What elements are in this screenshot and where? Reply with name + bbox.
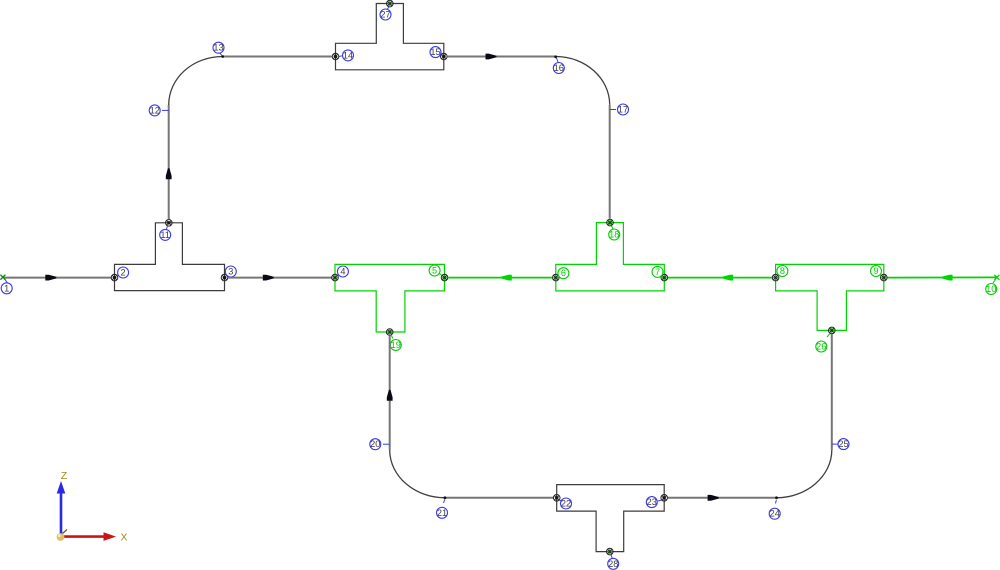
label 9 xyxy=(871,266,882,277)
svg-text:Z: Z xyxy=(61,470,68,482)
flow arrow pipe 1 xyxy=(45,275,56,281)
pipe 11-14 (vertical riser and elbow to top tee) xyxy=(168,105,170,219)
label 24 xyxy=(769,500,780,519)
pipe 7-8 (green) xyxy=(668,277,772,279)
svg-text:1: 1 xyxy=(4,283,9,293)
svg-text:12: 12 xyxy=(150,105,160,115)
marker node 5 (green) xyxy=(441,274,448,281)
svg-text:10: 10 xyxy=(986,284,996,294)
marker node 9 (green) xyxy=(881,274,888,281)
svg-text:27: 27 xyxy=(380,10,390,20)
pipe 9-10 (green) xyxy=(887,276,996,278)
label 4 xyxy=(337,266,348,277)
svg-text:15: 15 xyxy=(430,47,440,57)
tee junction D (nodes 8,9,26 - green, stem down) xyxy=(776,264,884,330)
svg-text:22: 22 xyxy=(561,499,571,509)
label 7 xyxy=(652,266,663,277)
node 16 vertex dot xyxy=(554,55,557,58)
marker node 26 (green) xyxy=(829,327,836,334)
marker node 6 (green) xyxy=(553,274,560,281)
label 3 xyxy=(225,266,236,277)
node 21 vertex dot xyxy=(444,496,447,499)
marker node 28 (green) xyxy=(607,548,614,555)
svg-text:6: 6 xyxy=(561,268,566,278)
label 27 xyxy=(380,7,391,21)
label 25 xyxy=(832,439,849,450)
svg-text:19: 19 xyxy=(391,340,401,350)
svg-text:11: 11 xyxy=(160,230,170,240)
tee junction E (nodes 14,15,27) xyxy=(336,4,444,70)
label 22 xyxy=(560,498,572,509)
flow arrow pipe 9 (green, left) xyxy=(942,275,953,281)
svg-text:2: 2 xyxy=(121,268,126,278)
svg-text:14: 14 xyxy=(343,50,353,60)
tee junction F (nodes 22,23,28 - stem down) xyxy=(557,485,665,552)
svg-text:7: 7 xyxy=(655,267,660,277)
svg-text:9: 9 xyxy=(873,266,878,276)
pipe 15-16-17-18 (top right run and elbow down) xyxy=(448,56,556,58)
svg-text:28: 28 xyxy=(608,559,618,569)
flow arrow pipe 19 (up) xyxy=(387,390,393,401)
label 26 xyxy=(816,334,830,353)
label 8 xyxy=(777,266,788,277)
svg-text:25: 25 xyxy=(838,439,848,449)
label 23 xyxy=(646,497,661,508)
marker node 4 xyxy=(332,274,339,281)
label 2 xyxy=(117,267,129,278)
marker node 18 (green) xyxy=(607,219,614,226)
tee junction C (nodes 6,7,18 - green) xyxy=(556,223,665,291)
svg-text:16: 16 xyxy=(554,63,564,73)
flow arrow pipe 4 xyxy=(263,275,274,281)
flow arrow pipe 11 xyxy=(166,168,172,179)
label 14 xyxy=(339,50,354,61)
node 1 endpoint X xyxy=(0,275,5,280)
pipe 1 (left inlet pipe) xyxy=(4,277,111,279)
marker node 27 (green) xyxy=(387,0,394,7)
svg-text:8: 8 xyxy=(780,266,785,276)
label 17 xyxy=(610,104,629,115)
svg-text:24: 24 xyxy=(770,509,780,519)
svg-text:X: X xyxy=(120,532,127,544)
svg-text:4: 4 xyxy=(340,267,345,277)
svg-text:20: 20 xyxy=(370,439,380,449)
svg-text:5: 5 xyxy=(432,266,437,276)
label 13 xyxy=(213,42,224,56)
label 19 xyxy=(390,335,401,351)
label 20 xyxy=(370,439,390,450)
marker node 14 xyxy=(332,53,339,60)
label 5 xyxy=(429,265,441,276)
svg-text:3: 3 xyxy=(228,267,233,277)
pipe 19-20-21-22 (lower left loop) xyxy=(389,336,391,450)
label 21 xyxy=(437,500,448,519)
axis origin ball xyxy=(57,533,65,541)
svg-text:18: 18 xyxy=(609,230,619,240)
label 16 xyxy=(553,58,564,74)
marker node 7 (green) xyxy=(661,274,668,281)
flow arrow pipe 7 (green, left) xyxy=(722,275,733,281)
label 6 xyxy=(558,268,569,279)
svg-text:23: 23 xyxy=(647,497,657,507)
marker node 2 xyxy=(111,274,118,281)
label 10 xyxy=(986,280,997,295)
flow arrow pipe 15 xyxy=(486,54,497,60)
tee junction B (nodes 4,5,19 - green, stem down) xyxy=(335,264,445,332)
pipe 2-3 run (tee A to tee B) xyxy=(228,277,332,279)
flow arrow pipe 5 (green, left) xyxy=(501,275,512,281)
svg-text:13: 13 xyxy=(213,43,223,53)
label 15 xyxy=(430,47,442,58)
marker node 22 xyxy=(553,495,560,502)
pipe 5-6 (green) xyxy=(448,277,552,279)
label 11 xyxy=(160,226,171,240)
label 1 xyxy=(1,279,12,294)
svg-text:21: 21 xyxy=(437,508,447,518)
node 10 endpoint X (green) xyxy=(994,275,999,280)
pipe 23-24-25-26 (lower right loop) xyxy=(668,497,777,499)
marker node 3 xyxy=(221,274,228,281)
node 13 vertex dot xyxy=(221,55,224,58)
marker node 11 xyxy=(166,220,173,227)
svg-text:26: 26 xyxy=(816,342,826,352)
axis indicator: X arrow (red) xyxy=(63,535,104,538)
flow arrow pipe 23 xyxy=(708,495,719,501)
label 18 xyxy=(609,226,620,240)
label 28 xyxy=(608,555,619,569)
marker node 8 (green) xyxy=(772,274,779,281)
axis indicator: Z arrow (blue) xyxy=(60,492,63,535)
tee junction A (nodes 2,3,11) xyxy=(115,223,225,291)
marker node 15 xyxy=(441,53,448,60)
axis small tick xyxy=(63,530,68,534)
marker node 19 (green) xyxy=(386,329,393,336)
marker node 23 xyxy=(661,495,668,502)
svg-text:17: 17 xyxy=(618,105,628,115)
label 12 xyxy=(149,105,169,116)
node 24 vertex dot xyxy=(775,496,778,499)
